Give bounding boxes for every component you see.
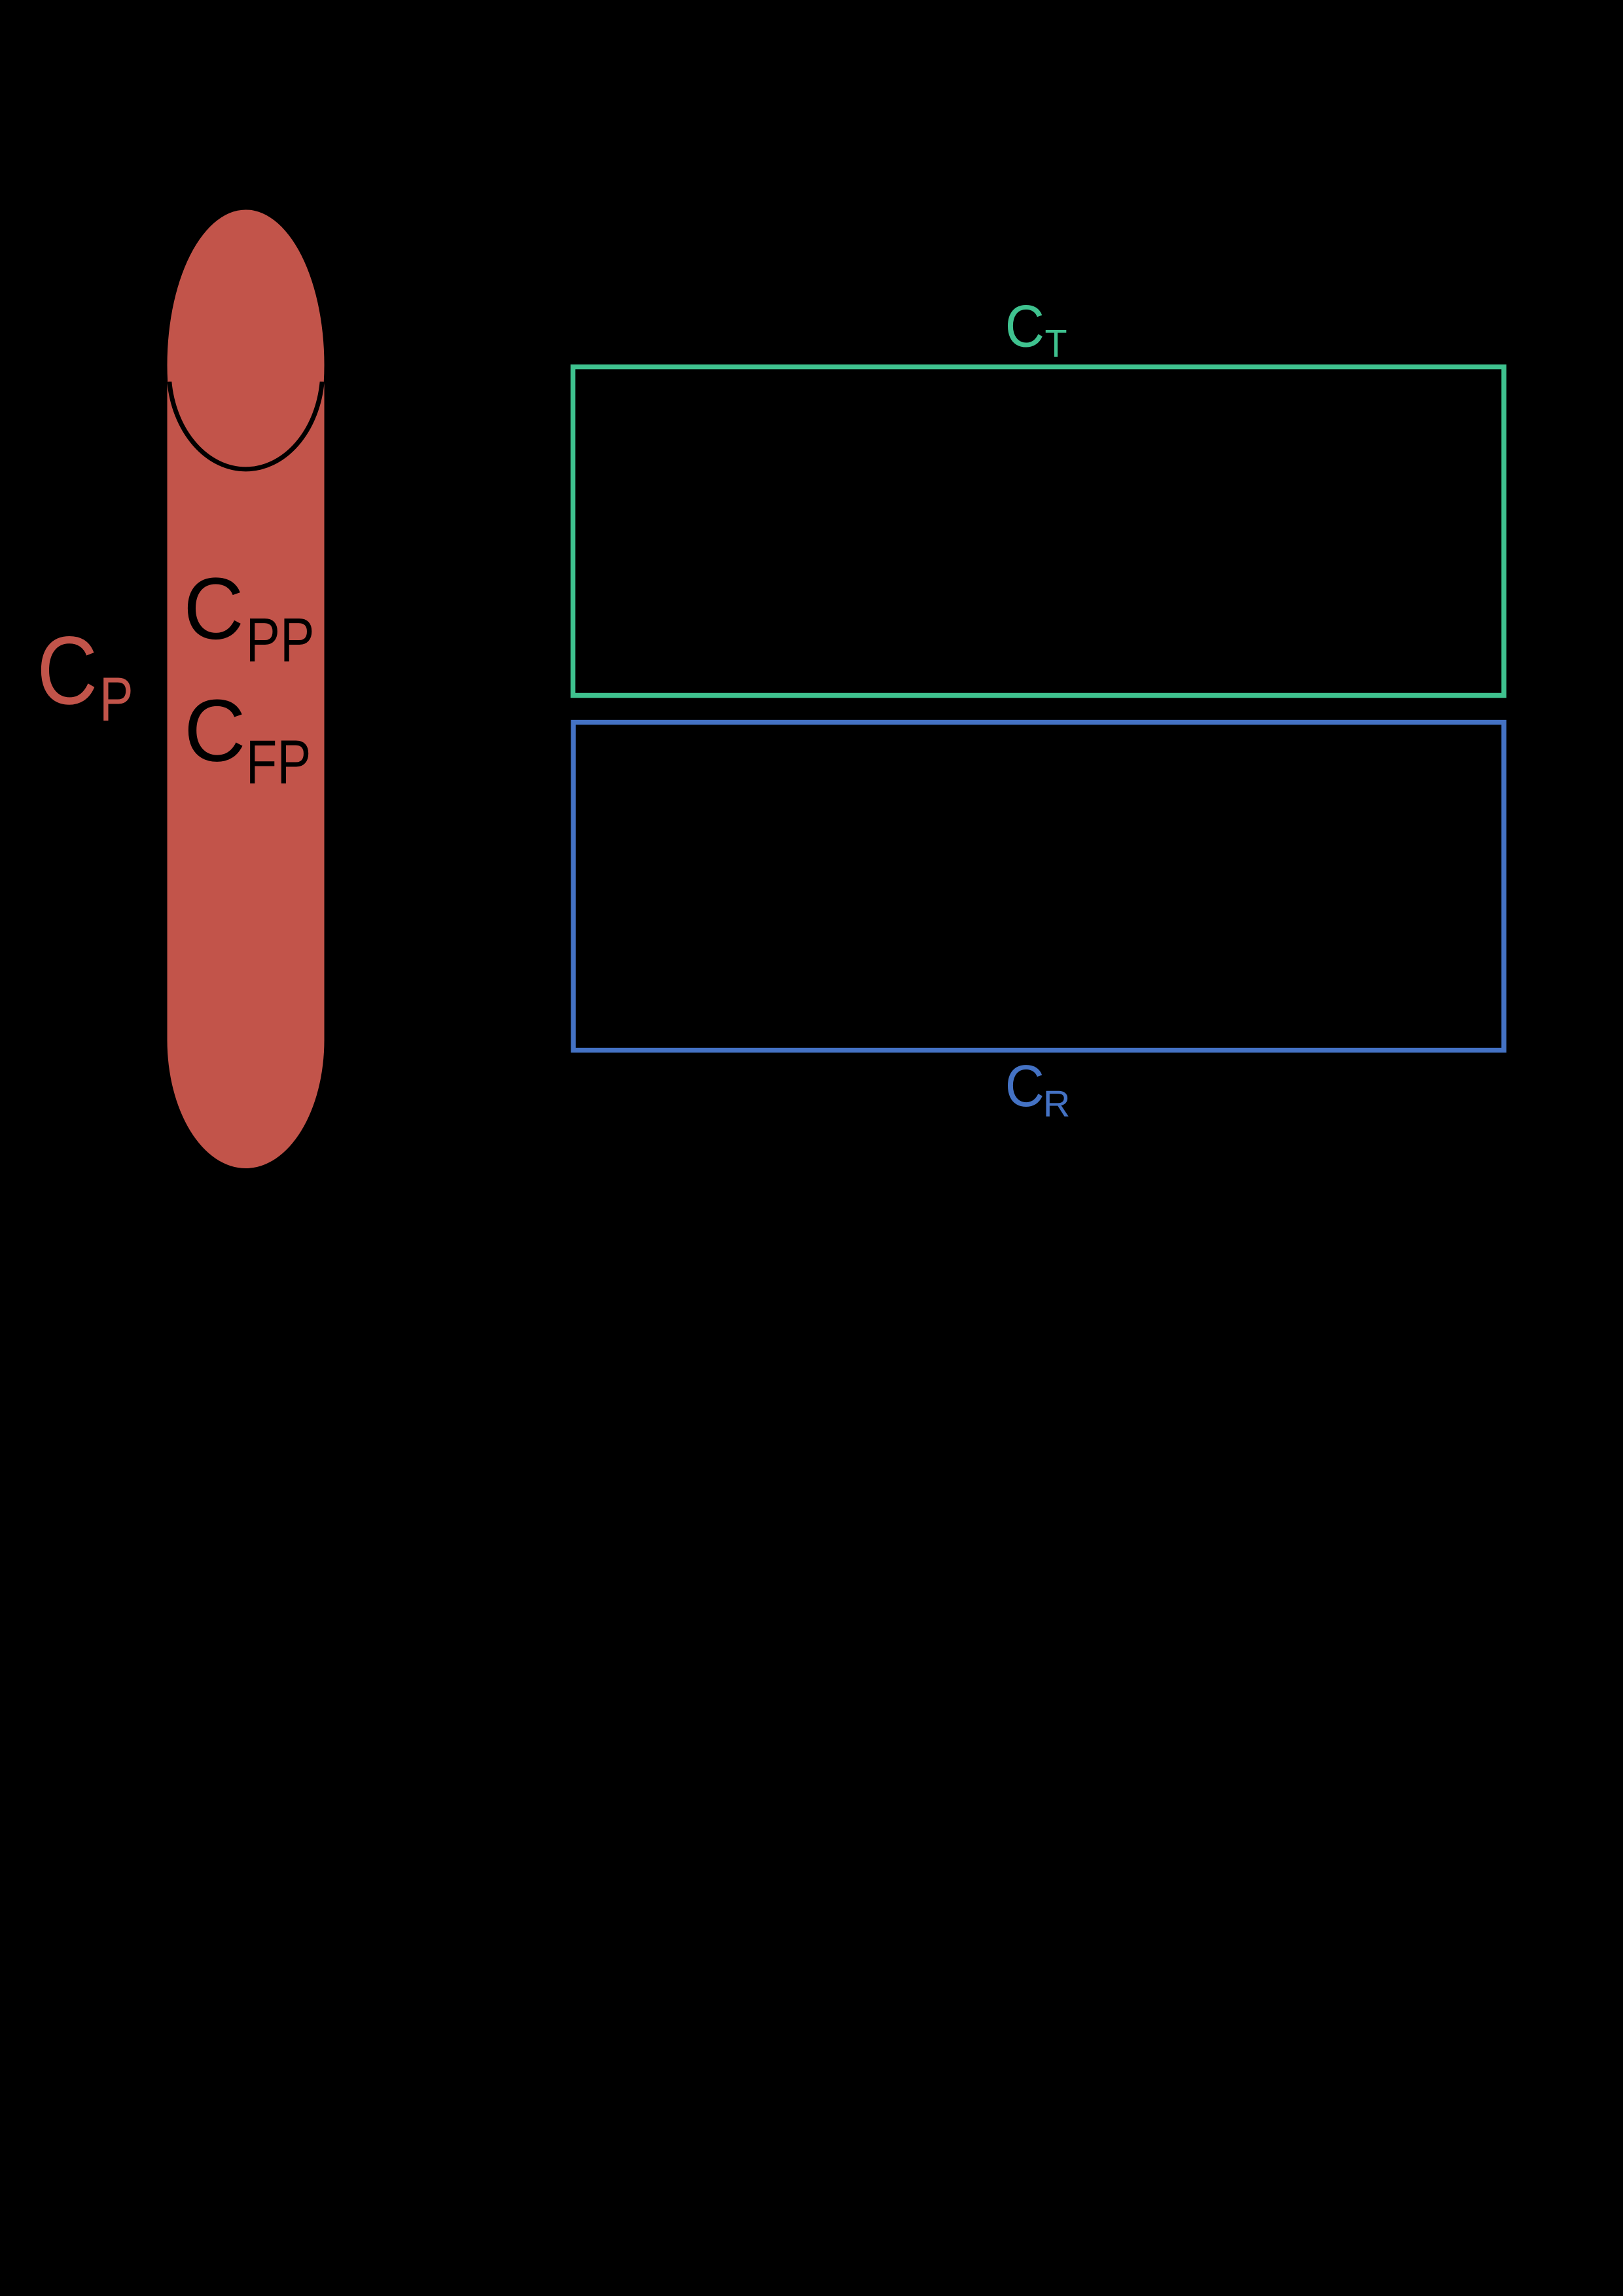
svg-text:C: C	[184, 682, 245, 780]
svg-text:T: T	[1045, 323, 1067, 366]
label C_T (green)	[1005, 293, 1044, 359]
svg-text:FP: FP	[246, 728, 312, 797]
svg-text:C: C	[1005, 293, 1044, 359]
label C_R (blue)	[1005, 1054, 1044, 1119]
fingertip dome (red)	[168, 209, 325, 382]
fingernail arc (black)	[169, 382, 322, 469]
label C_FP (black on finger)	[184, 682, 245, 780]
svg-text:P: P	[99, 666, 134, 734]
label C_PP (black on finger)	[183, 560, 243, 657]
svg-text:C: C	[1005, 1054, 1044, 1119]
svg-text:C: C	[37, 617, 98, 725]
svg-text:R: R	[1043, 1083, 1071, 1125]
transmitter electrode rectangle C_T (green outline)	[573, 367, 1505, 696]
label C_P (red)	[37, 617, 98, 725]
svg-text:PP: PP	[246, 606, 315, 675]
finger bottom cap (red)	[168, 1040, 325, 1168]
svg-text:C: C	[183, 560, 243, 657]
finger body (red)	[168, 382, 325, 1040]
receiver electrode rectangle C_R (blue outline)	[573, 723, 1504, 1050]
